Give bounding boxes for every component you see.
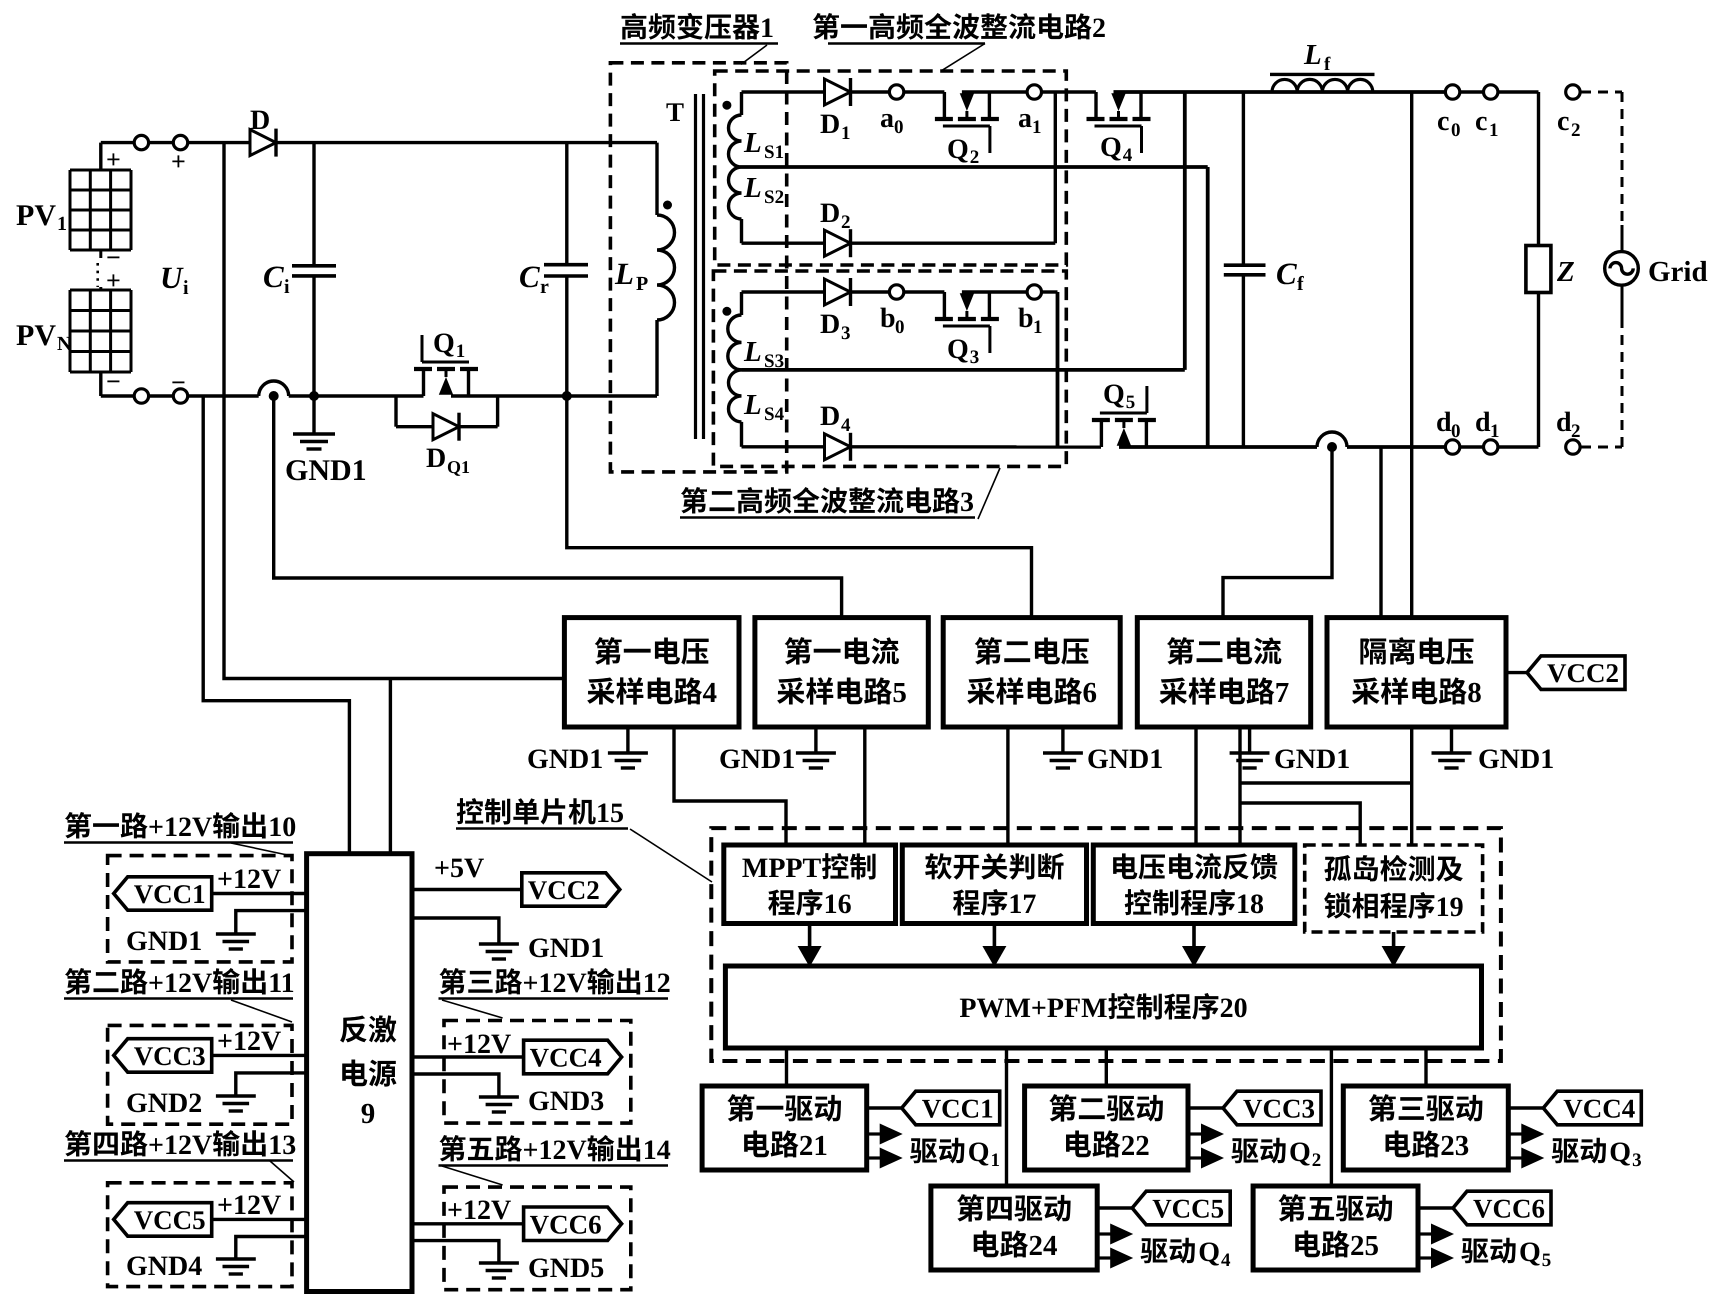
ground GND1 output1 [216,934,256,949]
wire b0 to Q3 [904,290,945,293]
svg-text:U: U [160,260,184,295]
text 第一电压采样电路4 [587,637,717,709]
wire flyback to VCC4 [412,1055,523,1058]
svg-text:S2: S2 [764,187,784,208]
svg-text:L: L [743,127,762,159]
wire a center tap riser down to d-rail [1206,167,1210,447]
block 第一驱动21 [702,1086,867,1170]
text 孤岛检测及锁相程序19 [1324,855,1463,923]
wire flyback to VCC6 [412,1222,523,1225]
terminal circle bottom-right [173,389,187,403]
wire GND1 return output1 [236,911,307,934]
wire GND3 return [412,1074,499,1097]
label GND1 right [528,933,604,964]
drive arrow 1 Q4 [1097,1224,1133,1245]
wire top rail Q4 to c0 [1114,90,1446,94]
label PVN [16,319,72,355]
leader line for label 3 [978,468,1000,519]
text 反激电源9 [340,1015,396,1130]
label LS4 [743,389,785,425]
label a0 [880,103,904,138]
wire box5 to MPPT block [863,727,866,845]
label 驱动Q4 [1141,1237,1231,1271]
wire driver 23 to VCC flag [1508,1106,1543,1109]
dashed wire grid riser bottom [1621,285,1624,447]
label Q5 [1103,379,1135,413]
ground GND5 [479,1263,519,1278]
wire LS1 top lead to D1 [742,90,825,93]
svg-text:4: 4 [703,677,718,709]
label Z [1556,256,1575,288]
svg-text:b: b [880,303,896,334]
svg-text:12: 12 [643,968,671,999]
svg-text:D: D [820,309,840,340]
flag VCC4 flyback [524,1040,622,1074]
dashed block 孤岛检测及锁相程序19 [1305,845,1483,932]
diode D3 [825,278,851,306]
svg-text:2: 2 [1571,421,1581,442]
drive arrow 1 Q2 [1188,1124,1224,1145]
svg-text:GND1: GND1 [528,933,604,964]
wire bottom rail mid part [289,394,424,397]
node c0 [1445,85,1459,99]
svg-text:Q: Q [1100,132,1122,163]
wire box7 to block18 pin1 [1194,727,1197,845]
svg-text:17: 17 [1008,889,1036,920]
block 第二电压采样电路6 [943,618,1120,727]
ground under box4 [608,727,648,768]
svg-text:GND5: GND5 [528,1253,604,1284]
PV panel PV1 [70,170,131,250]
label GND1 under box4 [527,744,603,775]
label LS3 [743,336,784,372]
text 第二驱动22 [1049,1094,1163,1162]
polarity dot LS3 [722,307,731,316]
label 高频变压器1 [620,13,778,44]
winding LS1 [729,92,742,167]
svg-text:c: c [1557,106,1569,137]
svg-text:VCC3: VCC3 [1243,1094,1315,1124]
dashed box output 14 [444,1187,631,1290]
svg-text:10: 10 [268,812,296,843]
dashed wire c2 to grid corner [1581,91,1622,94]
text MPPT控制程序16 [742,853,876,920]
svg-text:Q: Q [1198,1237,1220,1268]
label c1 [1475,106,1499,141]
label D1 [820,109,851,144]
svg-text:VCC6: VCC6 [530,1209,602,1239]
svg-text:+12V: +12V [148,812,212,843]
svg-text:VCC1: VCC1 [134,879,206,909]
svg-text:9: 9 [361,1098,376,1130]
wire d-rail to sampling circuit 8 pin1 [1379,447,1382,618]
ground under box7 [1230,727,1270,768]
svg-text:19: 19 [1436,892,1464,923]
hump crossing on bottom rail [259,381,289,396]
text 电压电流反馈控制程序18 [1113,853,1277,920]
svg-text:VCC6: VCC6 [1473,1194,1545,1224]
block 第二驱动22 [1025,1086,1188,1170]
svg-text:+12V: +12V [217,1026,281,1057]
node c2 [1566,85,1580,99]
block 第一电流采样电路5 [755,618,928,727]
svg-text:0: 0 [1451,421,1461,442]
svg-text:D: D [820,401,840,432]
svg-text:18: 18 [1236,889,1264,920]
MOSFET Q1 [414,335,478,396]
block 第二电流采样电路7 [1137,618,1310,727]
minus sign at input terminal bottom [171,368,186,397]
svg-text:4: 4 [1123,145,1133,166]
wire c0 to c1 [1460,90,1484,93]
svg-text:1: 1 [57,213,67,235]
svg-text:f: f [1324,54,1331,75]
svg-text:22: 22 [1121,1130,1150,1162]
node b1 [1027,285,1041,299]
svg-text:1: 1 [991,1150,1001,1171]
svg-text:d: d [1475,407,1491,438]
dashed box transformer 1 [610,63,786,472]
block 软开关判断程序17 [902,845,1086,924]
svg-text:VCC5: VCC5 [134,1205,206,1235]
label Cr [519,259,549,298]
svg-text:C: C [519,259,540,294]
leader line for label 1 [741,45,767,64]
label D2 [820,198,851,233]
svg-text:c: c [1437,106,1449,137]
node a0 [889,85,903,99]
node d0 [1445,440,1459,454]
svg-text:S4: S4 [764,404,785,425]
svg-text:GND1: GND1 [1274,744,1350,775]
MOSFET Q3 [935,292,999,353]
svg-text:D: D [820,198,840,229]
leader line for label 11 [231,1000,292,1022]
svg-text:8: 8 [1467,677,1482,709]
label +12V output5 [447,1195,511,1226]
junction dot Ci bottom [309,391,319,401]
drive arrow 2 Q4 [1097,1248,1133,1269]
wire LS3 top lead to D3 [742,290,825,293]
text 隔离电压采样电路8 [1352,637,1482,709]
label d2 [1556,407,1581,442]
block PWM+PFM控制程序20 [725,966,1481,1048]
center tap wire LS1-LS2 [742,165,1208,169]
svg-text:Q: Q [947,334,969,365]
svg-text:25: 25 [1350,1230,1379,1262]
label 第五路+12V输出14 [439,1135,671,1166]
svg-text:Q: Q [947,134,969,165]
ground GND1 below Ci [293,396,335,449]
wire LS2 bottom lead to D2 [742,241,825,244]
leader line for label 2 [942,44,985,71]
terminal circle bottom-left [134,389,148,403]
svg-text:Q: Q [1609,1137,1631,1168]
drive arrow 2 Q5 [1418,1248,1454,1269]
wire PWM to driver 24 [1005,1048,1008,1186]
wire link between top terminals [149,141,174,144]
arrow block19 to PWM [1382,932,1406,967]
drive arrow 2 Q2 [1188,1148,1224,1169]
wire PV+ rail down to sampling circuit 4 [224,143,564,679]
svg-text:0: 0 [895,317,905,338]
ground under box5 [796,727,836,768]
svg-text:a: a [1018,103,1032,134]
wire branch to block19 second [1240,803,1360,845]
block 第五驱动25 [1253,1186,1418,1270]
flag VCC5 flyback [114,1203,212,1237]
label Ui [160,260,189,299]
label D [250,105,270,136]
svg-text:Q: Q [1289,1137,1311,1168]
flag VCC1 driver 21 [902,1091,1000,1125]
svg-text:16: 16 [824,889,852,920]
wire Z to d-rail corner [1498,293,1539,448]
label 第二路+12V输出11 [64,968,295,999]
svg-text:3: 3 [970,347,980,368]
wire box8 to VCC2 flag [1506,671,1527,674]
wire a0 to Q2 [904,90,945,93]
wire LS4 bottom lead to D4 [742,445,825,448]
label Grid [1648,256,1708,288]
svg-text:GND1: GND1 [126,926,202,957]
label c0 [1437,106,1461,141]
leader line for label 14 [442,1166,503,1185]
label D4 [820,401,851,436]
label LS1 [743,127,784,163]
text PWM+PFM控制程序20 [959,993,1247,1024]
svg-text:d: d [1556,407,1572,438]
text 软开关判断程序17 [925,853,1064,920]
svg-text:f: f [1297,273,1304,295]
leader line for label 10 [231,843,292,856]
label PV1 [16,199,67,235]
ground GND2 [216,1096,256,1111]
label +12V output1 [217,864,281,895]
wire a1 to Q4 [1042,90,1096,93]
center tap wire LS3-LS4 [742,368,1185,372]
wire PWM to driver 25 [1330,1048,1333,1186]
label 第一路+12V输出10 [64,812,296,843]
polarity dot LP [663,201,672,210]
label +12V output4 [217,1190,281,1221]
wire GND4 return [236,1237,307,1260]
svg-text:21: 21 [799,1130,828,1162]
block 第四驱动24 [931,1186,1097,1270]
label LS2 [743,172,784,208]
label d0 [1436,407,1461,442]
label Q1 [433,328,465,362]
svg-text:+5V: +5V [434,853,484,884]
svg-text:+12V: +12V [217,864,281,895]
svg-text:5: 5 [892,677,907,709]
svg-text:+12V: +12V [148,1130,212,1161]
svg-text:S1: S1 [764,142,784,163]
MOSFET Q2 [935,92,999,153]
svg-text:3: 3 [1632,1150,1642,1171]
drive arrow 2 Q3 [1508,1148,1544,1169]
svg-text:+12V: +12V [148,968,212,999]
block MPPT控制程序16 [724,845,896,924]
flag VCC6 driver 25 [1453,1191,1551,1225]
wire driver 24 to VCC flag [1097,1206,1132,1209]
svg-text:VCC4: VCC4 [1563,1094,1635,1124]
wire VCC3 to flyback [213,1054,307,1057]
label d1 [1475,407,1500,442]
ground GND1 right [479,944,519,959]
wire PV1 top lead [101,143,134,170]
text 第一电流采样电路5 [777,637,907,709]
wire PV- rail down to flyback [203,396,349,854]
minus sign at PVN terminal [106,367,121,396]
PV panel PVN [70,290,131,372]
label T [666,97,684,127]
wire top rail from D to LP corner [276,141,657,144]
svg-text:PWM+PFM: PWM+PFM [959,993,1107,1024]
svg-text:GND1: GND1 [285,454,367,487]
svg-text:T: T [666,97,684,127]
svg-text:2: 2 [1312,1150,1322,1171]
ground under box6 [1043,727,1083,768]
svg-text:1: 1 [841,123,851,144]
svg-text:3: 3 [960,487,974,518]
svg-text:GND3: GND3 [528,1086,604,1117]
transformer core T [696,94,704,439]
text 第三驱动23 [1369,1094,1483,1162]
inductor Lf [1270,74,1375,92]
node a1 [1027,85,1041,99]
svg-text:GND1: GND1 [1478,744,1554,775]
block 电压电流反馈控制程序18 [1093,845,1295,924]
wire flyback to VCC2 [412,888,521,891]
text 第四驱动24 [957,1194,1071,1262]
wire d-rail sense to sampling circuit 7 [1223,447,1332,618]
hump crossing on d-rail [1317,432,1347,447]
arrow block17 to PWM [982,924,1006,968]
svg-text:GND2: GND2 [126,1088,202,1119]
label Cf [1276,256,1304,295]
svg-text:Q1: Q1 [447,457,470,477]
svg-text:GND1: GND1 [527,744,603,775]
label c2 [1557,106,1581,141]
leader line for label 15 [630,829,712,882]
wire Q3 to b1 [962,290,1027,293]
svg-text:1: 1 [1490,421,1500,442]
svg-text:15: 15 [596,798,624,829]
svg-text:13: 13 [268,1130,296,1161]
flag VCC4 driver 23 [1543,1091,1641,1125]
svg-text:Q: Q [968,1137,990,1168]
label LP [614,256,648,295]
label GND1 under box5 [719,744,795,775]
wire driver 25 to VCC flag [1418,1206,1453,1209]
svg-text:4: 4 [1221,1250,1231,1271]
arrow block16 to PWM [798,924,822,968]
label 第三路+12V输出12 [439,968,671,999]
wire box8 bottom pin to block19 [1410,727,1413,845]
drive arrow 2 Q1 [867,1148,903,1169]
svg-text:d: d [1436,407,1452,438]
label +12V output3 [447,1029,511,1060]
svg-text:D: D [820,109,840,140]
node d2 [1566,440,1580,454]
wire GND1 return right [412,918,499,944]
svg-text:L: L [614,256,634,291]
svg-text:L: L [1303,39,1322,71]
svg-text:P: P [636,273,648,295]
label b1 [1018,303,1043,338]
svg-text:VCC2: VCC2 [1547,658,1619,688]
winding LS3 [728,292,742,370]
wire GND2 return [236,1073,307,1096]
capacitor Ci [292,143,336,396]
wire c1 to Z branch corner [1498,92,1539,246]
label 驱动Q3 [1552,1137,1642,1171]
plus sign at PV1 terminal [106,145,121,174]
label Q3 [947,334,979,368]
wire PWM to driver 22 [1105,1048,1108,1086]
svg-text:VCC3: VCC3 [134,1041,206,1071]
wire box6 to block17 [1006,727,1009,845]
wire driver 22 to VCC flag [1188,1106,1223,1109]
svg-text:2: 2 [1571,120,1581,141]
wire driver 21 to VCC flag [867,1106,902,1109]
svg-text:c: c [1475,106,1487,137]
svg-text:1: 1 [1033,317,1043,338]
svg-text:C: C [263,259,284,294]
dashed box output 12 [444,1021,631,1124]
svg-text:11: 11 [268,968,294,999]
svg-text:24: 24 [1029,1230,1058,1262]
svg-text:r: r [540,276,549,298]
svg-text:2: 2 [841,212,851,233]
flag VCC5 driver 24 [1132,1191,1230,1225]
diode D4 [825,433,851,461]
flag VCC2 sampling [1527,656,1625,690]
svg-text:1: 1 [1032,117,1042,138]
svg-text:+12V: +12V [217,1190,281,1221]
label 第二高频全波整流电路3 [680,487,975,518]
label 驱动Q5 [1461,1237,1551,1271]
svg-text:0: 0 [894,117,904,138]
wire branch to block19 via box8 riser [1240,781,1412,784]
svg-text:+: + [106,145,121,174]
arrow block18 to PWM [1182,924,1206,968]
label Q4 [1100,132,1133,166]
svg-text:N: N [57,333,72,355]
wire Cr node down to sampling circuit 6 [567,396,1032,618]
wire D4 cathode to Q5 [851,445,1102,449]
svg-text:3: 3 [841,323,851,344]
svg-text:0: 0 [1451,120,1461,141]
svg-text:GND1: GND1 [719,744,795,775]
wire box4 to MPPT block [674,727,786,845]
svg-text:PV: PV [16,199,56,232]
wire D1 to a0 [851,90,890,93]
wire branch down to flyback second input [389,679,392,854]
diode D1 [825,78,851,106]
svg-text:Z: Z [1556,256,1575,288]
label a1 [1018,103,1042,138]
dashed box first HF rectifier 2 [715,71,1067,265]
flag VCC3 driver 22 [1223,1091,1321,1125]
flag VCC6 flyback [524,1207,622,1241]
svg-text:5: 5 [1126,392,1136,413]
winding LP [657,143,675,396]
wire PV- sense to sampling circuit 5 [274,396,842,618]
svg-text:+: + [106,266,121,295]
diode D2 [825,229,851,257]
